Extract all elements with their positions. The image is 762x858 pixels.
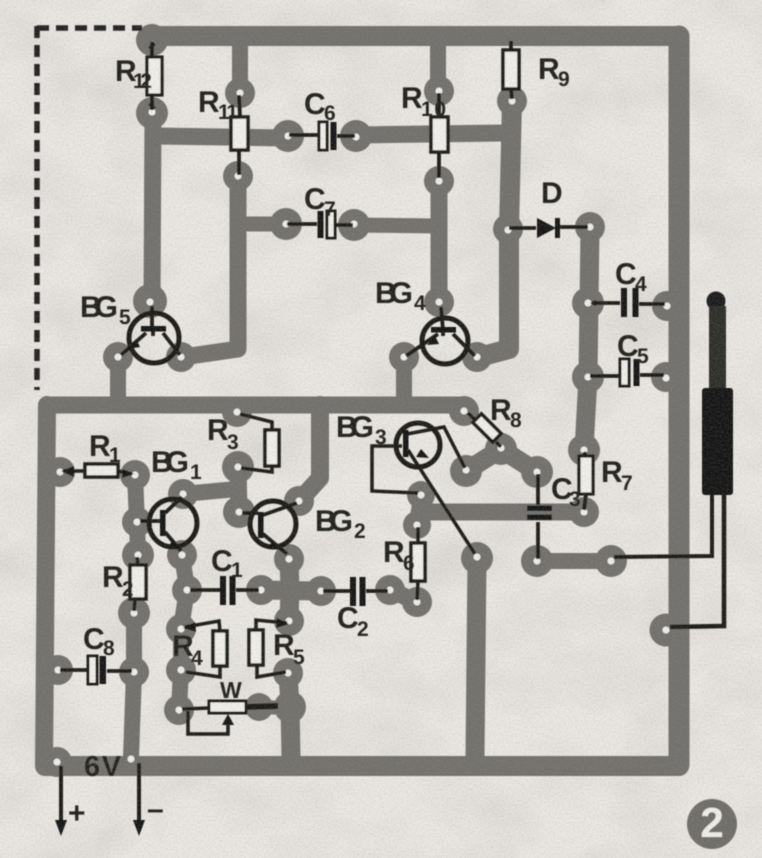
node C5 right pad xyxy=(651,362,681,392)
resistor R4 xyxy=(183,621,227,677)
wire bottom ground trace xyxy=(45,756,679,776)
capacitor C4 xyxy=(590,288,665,317)
node R6 top pad xyxy=(403,511,431,539)
node R11 top pad xyxy=(225,78,255,108)
wire branch to C7 left xyxy=(238,217,286,232)
wire BG1 collector to R3 bottom column xyxy=(183,489,237,494)
resistor R2 xyxy=(130,557,146,611)
power minus arrow xyxy=(133,763,145,836)
node BG4 collector pad xyxy=(462,342,492,372)
transistor BG2 xyxy=(242,501,297,554)
node antenna wire pad xyxy=(595,545,627,577)
node R8 top pad xyxy=(449,396,479,426)
wire BG2 collector riser xyxy=(301,405,320,499)
node R4 top pad xyxy=(166,614,196,644)
node C3 top pad xyxy=(521,456,553,488)
node W right chain pad xyxy=(274,691,306,723)
resistor R7 xyxy=(579,452,593,510)
wire R8 BG3 C3 cluster xyxy=(466,449,537,472)
node BG5 emitter pad xyxy=(103,342,133,372)
wire R11 top stub xyxy=(232,42,248,92)
node diode left pad xyxy=(493,214,523,244)
resistor R5 xyxy=(249,618,289,677)
wire left border trace xyxy=(44,405,47,765)
wire C6 right to D column xyxy=(356,133,505,135)
node R5 top pad xyxy=(274,606,304,636)
wire R9 pad to diode to BG4 collector xyxy=(479,101,512,357)
node BG2 base pad xyxy=(223,496,255,528)
resistor R12 xyxy=(147,42,162,110)
resistor R3 xyxy=(240,414,279,472)
wire R5 bottom to W right down to bottom xyxy=(288,673,291,757)
node BG4 base pad xyxy=(424,287,454,317)
node W left pad xyxy=(164,695,194,725)
figure number 2 badge xyxy=(687,799,737,849)
resistor R10 xyxy=(431,93,448,178)
node R1 right pad xyxy=(120,460,150,490)
transistor BG4 xyxy=(406,307,475,364)
node C1 left pad xyxy=(172,575,202,605)
wire BG3 emitter down to bottom xyxy=(475,558,477,757)
resistor R6 xyxy=(411,527,425,600)
transistor BG1 xyxy=(140,497,197,551)
capacitor C7 xyxy=(287,211,353,238)
node R10 bottom pad xyxy=(424,166,454,196)
transistor BG3 xyxy=(372,423,475,554)
node C6 left pad xyxy=(272,120,304,152)
node C5 left pad xyxy=(572,361,604,393)
pads layer xyxy=(42,24,683,777)
power plus arrow xyxy=(55,766,67,836)
node BG2 emitter pad xyxy=(274,544,304,574)
node R5 bottom pad xyxy=(273,658,303,688)
capacitor C1 xyxy=(190,576,259,605)
node BG3 emitter pad xyxy=(461,542,493,574)
node BG1 collector pad xyxy=(168,479,198,509)
node R7 top pad xyxy=(568,434,600,466)
wire top supply trace xyxy=(152,26,679,46)
wire R10 top stub xyxy=(430,42,446,90)
node R10 top pad xyxy=(424,76,454,106)
wire left column R2 bottom C8 down xyxy=(131,613,134,757)
wire R10 bottom to BG4 base xyxy=(431,181,448,302)
wire BG3 base pad to R6 top xyxy=(417,496,421,525)
capacitor C2 xyxy=(323,577,388,606)
node R2 top pad xyxy=(122,539,154,571)
node C1 right pad xyxy=(246,575,276,605)
wire left column BG1 base R2 xyxy=(135,475,138,555)
capacitor C8 xyxy=(60,656,132,684)
wire middle horizontal trace xyxy=(48,397,462,414)
wire BG4 emitter stub xyxy=(396,357,412,400)
resistor R1 xyxy=(61,464,134,478)
node R7 bottom pad xyxy=(569,497,599,527)
wire middle column BG1 emitter chain xyxy=(179,555,187,710)
dashed outline left xyxy=(34,26,40,390)
node C6 right pad xyxy=(340,120,372,152)
node C8 right pad xyxy=(119,657,149,687)
wire X cluster C1 C2 junction xyxy=(261,560,321,621)
node R3 bottom pad xyxy=(222,451,254,483)
wire mid trace from R12 pad to C6 xyxy=(156,136,288,138)
node left bottom corner pad xyxy=(42,747,72,777)
wire BG5 emitter stub xyxy=(110,357,126,400)
node C2 right pad xyxy=(375,575,405,605)
node R3 top pad xyxy=(222,397,252,427)
transistor BG5 xyxy=(121,306,180,363)
pad holes xyxy=(54,88,671,766)
wire R12 to BG5 base trace xyxy=(152,115,153,300)
capacitor C6 xyxy=(289,122,355,150)
wire R6 bottom blob xyxy=(390,590,417,602)
node C7 right pad xyxy=(338,209,370,241)
node BG5 collector pad xyxy=(166,342,196,372)
node BG3 collector pad xyxy=(450,455,482,487)
node BG4 emitter pad xyxy=(389,342,419,372)
node C7 left pad xyxy=(270,208,302,240)
dashed outline top xyxy=(37,25,142,31)
node C4 left pad xyxy=(572,287,604,319)
node BG1 emitter pad xyxy=(167,540,197,570)
node W right pad xyxy=(245,693,273,721)
wire right border trace xyxy=(669,36,690,765)
wire R11 bottom to BG5 collector xyxy=(183,176,238,357)
capacitor C5 xyxy=(590,359,664,386)
node R11 bottom pad xyxy=(223,161,253,191)
node R1 left pad xyxy=(45,457,75,487)
node BG1 base pad xyxy=(122,507,152,537)
diode D xyxy=(509,218,588,238)
node C2 left pad xyxy=(306,576,336,606)
resistor R8 xyxy=(468,413,501,447)
node R6 bottom pad xyxy=(402,587,432,617)
wire diode right pad down C4 C5 R7 column xyxy=(584,228,590,450)
node C8 left pad xyxy=(43,655,73,685)
node right border pad xyxy=(650,614,683,647)
node R8 bottom pad xyxy=(485,433,517,465)
node BG2 collector pad xyxy=(284,486,314,516)
antenna xyxy=(614,292,733,628)
wire R3 bottom pad to BG2 base pad xyxy=(238,468,239,511)
resistor R11 xyxy=(231,95,248,175)
node R4 bottom pad xyxy=(166,655,196,685)
resistor R9 xyxy=(503,41,519,99)
node R2 bottom pad xyxy=(118,597,150,629)
node top-left pad xyxy=(136,24,168,56)
node BG3 base pad xyxy=(407,481,435,509)
node BG5 base pad xyxy=(133,284,167,318)
node R12 bottom pad xyxy=(136,97,168,129)
capacitor C3 xyxy=(527,474,552,559)
node C3 bottom pad xyxy=(521,545,553,577)
node R9 bottom pad xyxy=(497,86,527,116)
wire W right pad link xyxy=(259,707,290,708)
node diode right pad xyxy=(575,212,605,242)
potentiometer W xyxy=(182,701,278,734)
node C4 right pad xyxy=(652,291,682,321)
wire horizontal trace to R7 bottom xyxy=(420,504,584,521)
wire C3 bottom dumbbell xyxy=(537,553,611,569)
wire C7 right to R10 column xyxy=(354,225,438,226)
